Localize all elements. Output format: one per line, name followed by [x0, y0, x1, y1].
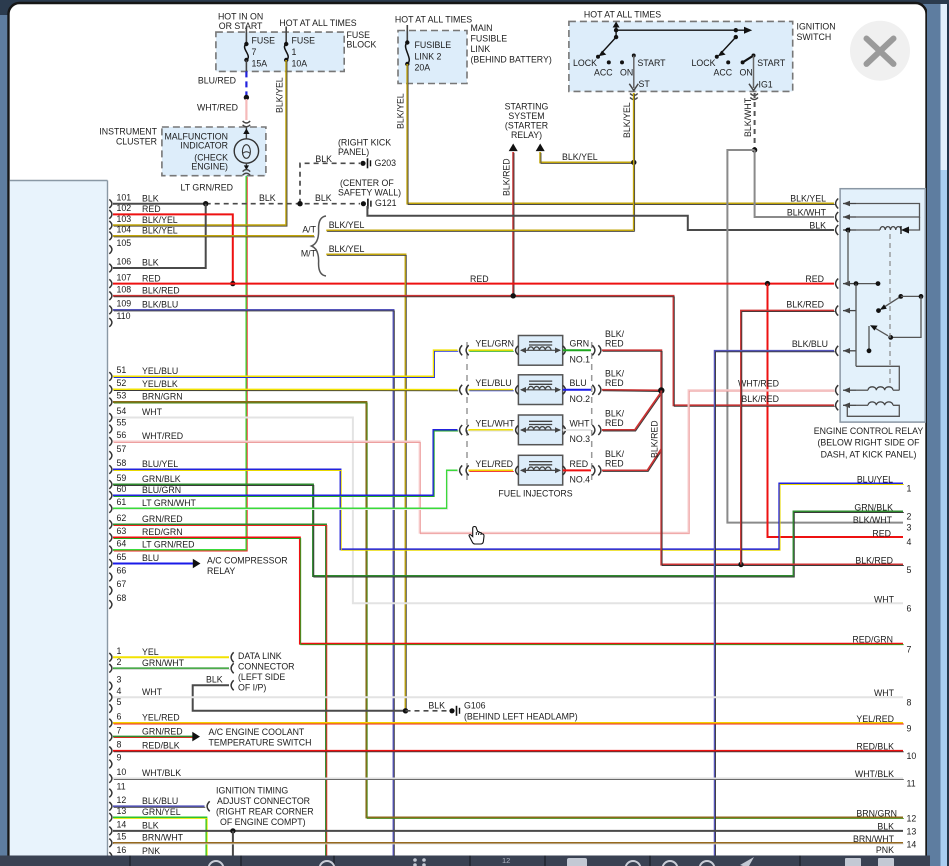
ground G203	[360, 161, 365, 166]
junction dot ST branch	[631, 160, 636, 165]
fuse F7 15A	[244, 42, 248, 46]
svg-text:BLK/YEL: BLK/YEL	[329, 220, 365, 230]
pin 53 bracket/label	[109, 398, 112, 407]
svg-text:(STARTER: (STARTER	[505, 121, 548, 131]
svg-text:BLK/RED: BLK/RED	[650, 420, 660, 458]
svg-text:OF ENGINE COMPT): OF ENGINE COMPT)	[220, 817, 306, 827]
pin 107 bracket/label	[109, 279, 112, 288]
svg-text:RED: RED	[605, 339, 624, 349]
ignition switch box	[569, 21, 793, 91]
relay coil lower (WHT/RED)	[856, 389, 868, 391]
wire 16 PNK	[113, 856, 903, 858]
svg-text:65: 65	[117, 552, 127, 562]
wire 60 BLU/GRN to injector 3	[113, 430, 458, 496]
svg-text:GRN/RED: GRN/RED	[142, 726, 183, 736]
injector NO.4 output wire RED	[563, 469, 591, 471]
svg-text:53: 53	[117, 391, 127, 401]
svg-text:RED/GRN: RED/GRN	[142, 527, 183, 537]
pin 64 bracket/label	[109, 546, 112, 555]
wire fuse 7 top lead	[245, 27, 247, 45]
svg-text:6: 6	[907, 603, 912, 613]
svg-text:4: 4	[907, 537, 912, 547]
close button	[850, 21, 910, 81]
wire BLU/RED dashed from fuse 7	[245, 60, 247, 71]
pin 5 bracket/label	[109, 704, 112, 713]
svg-text:RED: RED	[805, 274, 824, 284]
pin 66 bracket/label	[109, 573, 112, 582]
svg-text:13: 13	[907, 826, 917, 836]
svg-text:HOT AT ALL TIMES: HOT AT ALL TIMES	[279, 18, 356, 28]
pin 15 bracket/label	[109, 839, 112, 848]
ST output	[633, 56, 635, 89]
svg-text:ADJUST CONNECTOR: ADJUST CONNECTOR	[217, 796, 310, 806]
pin 12 bracket/label	[109, 802, 112, 811]
pin 1 bracket/label	[109, 653, 112, 662]
svg-text:101: 101	[117, 192, 132, 202]
svg-text:106: 106	[117, 257, 132, 267]
injector NO.1 output wire GRN	[563, 349, 591, 351]
svg-text:8: 8	[907, 697, 912, 707]
svg-text:BLK/YEL: BLK/YEL	[275, 77, 285, 113]
svg-text:ON: ON	[740, 67, 753, 77]
wire 8 RED/BLK to pin 10	[113, 750, 903, 752]
svg-text:SAFETY WALL): SAFETY WALL)	[338, 187, 401, 197]
svg-text:M/T: M/T	[301, 248, 317, 258]
pin 57 bracket/label	[109, 451, 112, 460]
relay wire BLK to switch common	[847, 230, 849, 284]
svg-text:15A: 15A	[252, 58, 268, 68]
svg-text:WHT: WHT	[874, 688, 895, 698]
svg-text:BRN/WHT: BRN/WHT	[142, 833, 184, 843]
pin 110 bracket/label	[109, 318, 112, 327]
svg-text:ACC: ACC	[594, 67, 613, 77]
svg-text:LT GRN/RED: LT GRN/RED	[142, 540, 194, 550]
wire 62 GRN/RED down	[113, 525, 326, 856]
relay pin connectors	[836, 199, 839, 209]
svg-text:14: 14	[117, 820, 127, 830]
svg-text:INSTRUMENT: INSTRUMENT	[99, 126, 157, 136]
svg-text:20A: 20A	[415, 62, 431, 72]
svg-text:YEL/WHT: YEL/WHT	[475, 418, 515, 428]
svg-text:BLK/WHT: BLK/WHT	[743, 97, 753, 137]
pin 67 bracket/label	[109, 586, 112, 595]
IG1 output	[753, 56, 755, 89]
relay coil lower (BLK/RED)	[856, 404, 868, 406]
svg-text:RED/BLK: RED/BLK	[142, 740, 180, 750]
svg-text:YEL/BLK: YEL/BLK	[142, 379, 178, 389]
svg-text:YEL/BLU: YEL/BLU	[142, 366, 178, 376]
svg-text:15: 15	[117, 832, 127, 842]
pin 52 bracket/label	[109, 385, 112, 394]
svg-text:ENGINE): ENGINE)	[191, 161, 228, 171]
pin 13 bracket/label	[109, 813, 112, 822]
wire 6 YEL/RED to pin 9	[113, 722, 903, 724]
svg-text:ST: ST	[639, 79, 651, 89]
svg-text:LT GRN/RED: LT GRN/RED	[181, 182, 233, 192]
relay switch arm 1	[876, 308, 881, 313]
malfunction indicator box	[162, 127, 266, 176]
pin 62 bracket/label	[109, 520, 112, 529]
svg-text:HOT AT ALL TIMES: HOT AT ALL TIMES	[395, 14, 472, 24]
svg-text:A/C COMPRESSOR: A/C COMPRESSOR	[207, 555, 288, 565]
injector NO.1 left connector	[460, 345, 463, 355]
pin 109 bracket/label	[109, 306, 112, 315]
wire 56 WHT/RED to relay coil	[113, 390, 834, 533]
toolbar icons (partial)	[209, 861, 715, 866]
pin 3 bracket/label	[109, 682, 112, 691]
svg-text:WHT/RED: WHT/RED	[142, 431, 183, 441]
svg-text:GRN/YEL: GRN/YEL	[142, 807, 181, 817]
wire BLK/WHT long to pin 3	[727, 150, 903, 523]
svg-text:G121: G121	[375, 198, 397, 208]
wire BLK/YEL from fuse 1 to pin 103	[113, 60, 286, 225]
svg-text:4: 4	[117, 686, 122, 696]
svg-text:BLU/YEL: BLU/YEL	[857, 475, 893, 485]
wire BLK/RED common to pin 5	[661, 391, 903, 565]
junction dot 101/G203	[297, 201, 302, 206]
pin 54 bracket/label	[109, 413, 112, 422]
fuse block box	[216, 32, 344, 71]
svg-text:FUSE: FUSE	[347, 30, 371, 40]
pin 14 bracket/label	[109, 827, 112, 836]
svg-text:BLK/WHT: BLK/WHT	[853, 515, 893, 525]
svg-text:BLK/YEL: BLK/YEL	[329, 244, 365, 254]
svg-text:54: 54	[117, 406, 127, 416]
wire BLK/YEL to starter relay	[540, 152, 634, 162]
relay junction dot BLK	[846, 228, 851, 233]
injector connector dashed line right	[591, 342, 593, 483]
relay dashed actuator line	[889, 234, 891, 386]
wire 104 BLK/YEL to A/T-M/T brace	[113, 235, 314, 237]
svg-text:12: 12	[117, 795, 127, 805]
svg-text:HOT AT ALL TIMES: HOT AT ALL TIMES	[584, 10, 661, 20]
pin 108 bracket/label	[109, 292, 112, 301]
svg-text:RED: RED	[470, 274, 489, 284]
svg-text:BRN/GRN: BRN/GRN	[142, 392, 183, 402]
svg-text:WHT/RED: WHT/RED	[738, 379, 779, 389]
svg-text:63: 63	[117, 526, 127, 536]
pin 68 bracket/label	[109, 600, 112, 609]
connector arcs below IG1	[750, 94, 758, 96]
svg-text:BLU/GRN: BLU/GRN	[142, 485, 181, 495]
pin 16 bracket/label	[109, 852, 112, 861]
svg-text:YEL/RED: YEL/RED	[142, 713, 180, 723]
svg-text:BLK/BLU: BLK/BLU	[142, 796, 178, 806]
svg-text:OF I/P): OF I/P)	[238, 682, 266, 692]
junction dot row5/relay	[738, 562, 743, 567]
svg-text:66: 66	[117, 566, 127, 576]
svg-text:BLK: BLK	[142, 193, 159, 203]
pin 104 bracket/label	[109, 232, 112, 241]
svg-text:WHT: WHT	[142, 687, 163, 697]
wire 12 BLK/BLU to ignition timing connector	[113, 805, 205, 807]
svg-text:(RIGHT REAR CORNER: (RIGHT REAR CORNER	[216, 806, 314, 816]
svg-text:GRN/BLK: GRN/BLK	[854, 503, 893, 513]
svg-text:5: 5	[117, 697, 122, 707]
wire BLK/RED relay switch to row 5	[741, 311, 834, 565]
injector NO.1 wire YEL/GRN	[469, 349, 514, 351]
svg-text:(BELOW RIGHT SIDE OF: (BELOW RIGHT SIDE OF	[818, 438, 921, 448]
injector connector dashed line left	[466, 342, 468, 481]
ignition timing connector arc	[207, 801, 210, 811]
svg-text:BLK: BLK	[315, 154, 332, 164]
svg-text:(LEFT SIDE: (LEFT SIDE	[238, 672, 285, 682]
svg-text:PANEL): PANEL)	[338, 147, 369, 157]
svg-text:BLK/BLU: BLK/BLU	[792, 339, 828, 349]
injector NO.2 left connector	[460, 385, 463, 395]
svg-text:TEMPERATURE SWITCH: TEMPERATURE SWITCH	[209, 737, 312, 747]
pin 6 bracket/label	[109, 719, 112, 728]
svg-text:HOT IN ON: HOT IN ON	[218, 11, 263, 21]
svg-text:START: START	[757, 58, 786, 68]
svg-text:107: 107	[117, 272, 132, 282]
injector NO.2 output wire BLU	[563, 389, 591, 391]
svg-text:51: 51	[117, 365, 127, 375]
junction dot 107/row4	[765, 281, 770, 286]
svg-text:GRN/BLK: GRN/BLK	[142, 474, 181, 484]
svg-text:YEL/BLU: YEL/BLU	[475, 378, 511, 388]
wire BLK dashed to G203	[300, 163, 360, 203]
relay wire common down	[855, 284, 857, 367]
svg-text:BLK: BLK	[206, 675, 223, 685]
svg-text:GRN/WHT: GRN/WHT	[142, 658, 185, 668]
wire BLK/RED injector 2	[602, 389, 661, 392]
junction dot 102/107	[230, 281, 235, 286]
scrollbar track	[927, 0, 949, 866]
wire 108 BLK/RED to relay coil	[113, 296, 834, 406]
svg-text:56: 56	[117, 430, 127, 440]
svg-text:MAIN: MAIN	[471, 23, 493, 33]
svg-text:BLK/RED: BLK/RED	[502, 158, 512, 196]
svg-text:BLK: BLK	[142, 258, 159, 268]
wire 2 GRN/WHT to data link	[113, 667, 229, 669]
wire BLK/RED injector 3	[602, 392, 661, 430]
wire 54 WHT to pin 6	[113, 418, 903, 604]
pin 63 bracket/label	[109, 533, 112, 542]
left connector panel (light blue)	[10, 181, 108, 856]
ignition switch 2 contacts	[734, 28, 738, 32]
svg-text:2: 2	[907, 511, 912, 521]
svg-text:START: START	[638, 58, 667, 68]
wire BLK data link to G106	[193, 685, 406, 711]
svg-text:RELAY: RELAY	[207, 566, 235, 576]
svg-text:LINK 2: LINK 2	[415, 51, 442, 61]
injector NO.1 right connector	[592, 345, 595, 355]
svg-text:BLU: BLU	[570, 378, 587, 388]
svg-text:BLOCK: BLOCK	[347, 39, 377, 49]
svg-text:RED/GRN: RED/GRN	[852, 635, 893, 645]
pin 65 bracket/label	[109, 559, 112, 568]
svg-text:59: 59	[117, 473, 127, 483]
svg-text:(BEHIND LEFT HEADLAMP): (BEHIND LEFT HEADLAMP)	[464, 711, 578, 721]
svg-text:1: 1	[292, 47, 297, 57]
svg-text:BLK/RED: BLK/RED	[142, 285, 180, 295]
svg-text:BLK: BLK	[809, 220, 826, 230]
svg-text:67: 67	[117, 579, 127, 589]
svg-text:12: 12	[502, 856, 510, 865]
svg-text:58: 58	[117, 458, 127, 468]
pin 51 bracket/label	[109, 372, 112, 381]
bottom toolbar	[0, 856, 930, 866]
pin 2 bracket/label	[109, 664, 112, 673]
svg-text:LT GRN/WHT: LT GRN/WHT	[142, 498, 197, 508]
svg-text:BLK/YEL: BLK/YEL	[142, 226, 178, 236]
svg-text:BLK/WHT: BLK/WHT	[787, 207, 827, 217]
injector NO.3 body	[518, 415, 562, 445]
relay coil (upper)	[856, 229, 880, 231]
dark top window edge	[0, 0, 949, 15]
pin 105 bracket/label	[109, 245, 112, 254]
svg-text:BLU/YEL: BLU/YEL	[142, 459, 178, 469]
data link connector arcs	[231, 652, 234, 662]
junction dot row 14	[230, 828, 235, 833]
svg-text:BRN/WHT: BRN/WHT	[853, 834, 895, 844]
injector NO.4 body	[518, 455, 562, 485]
svg-text:BLK: BLK	[142, 821, 159, 831]
svg-text:BLK/RED: BLK/RED	[786, 299, 824, 309]
pin 10 bracket/label	[109, 774, 112, 783]
svg-text:1: 1	[907, 483, 912, 493]
svg-text:ACC: ACC	[714, 67, 733, 77]
svg-text:FUSE: FUSE	[292, 35, 316, 45]
svg-text:LOCK: LOCK	[692, 58, 716, 68]
svg-text:10: 10	[907, 751, 917, 761]
svg-text:NO.1: NO.1	[570, 354, 591, 364]
svg-text:G203: G203	[375, 158, 397, 168]
wire 107 RED to relay	[113, 283, 834, 285]
injector NO.4 wire YEL/RED	[469, 469, 514, 471]
svg-text:BLK/BLU: BLK/BLU	[142, 300, 178, 310]
wire 51 YEL/BLU to injector 1	[113, 350, 458, 376]
wire fuse 1 top lead	[285, 27, 287, 45]
relay switch arm 2	[888, 335, 893, 340]
injector NO.2 right connector	[592, 385, 595, 395]
svg-text:YEL/RED: YEL/RED	[475, 459, 513, 469]
wire 63 RED/GRN to pin 7	[113, 538, 903, 644]
pin 9 bracket/label	[109, 760, 112, 769]
svg-text:LINK: LINK	[471, 44, 491, 54]
svg-text:WHT/BLK: WHT/BLK	[855, 769, 894, 779]
svg-text:DASH, AT KICK PANEL): DASH, AT KICK PANEL)	[821, 449, 917, 459]
svg-text:RED: RED	[605, 458, 624, 468]
svg-text:BLK/YEL: BLK/YEL	[562, 152, 598, 162]
junction dot 101/106	[203, 201, 208, 206]
svg-text:GRN: GRN	[570, 339, 590, 349]
fusible link 2 20A	[405, 40, 409, 44]
svg-text:6: 6	[117, 712, 122, 722]
injector NO.2 body	[518, 375, 562, 405]
svg-text:INDICATOR: INDICATOR	[180, 140, 228, 150]
fuse F1 10A	[284, 42, 288, 46]
wire BLK/YEL from fusible link to relay	[407, 64, 834, 204]
wire fusible link top lead	[406, 25, 408, 43]
A/T M/T brace	[312, 216, 327, 276]
svg-text:61: 61	[117, 497, 127, 507]
svg-text:YEL/GRN: YEL/GRN	[475, 339, 514, 349]
pin 101 bracket/label	[109, 199, 112, 208]
svg-text:FUSE: FUSE	[252, 35, 276, 45]
svg-text:DATA LINK: DATA LINK	[238, 651, 282, 661]
wire 61 LT GRN/WHT to injector 4	[113, 470, 458, 508]
junction dot IG1	[752, 147, 757, 152]
svg-text:NO.2: NO.2	[570, 394, 591, 404]
wire 7 GRN/RED to A/C switch	[113, 736, 193, 738]
svg-text:10: 10	[117, 767, 127, 777]
svg-text:7: 7	[907, 644, 912, 654]
svg-text:10A: 10A	[292, 58, 308, 68]
injector NO.2 wire YEL/BLU	[469, 389, 514, 391]
svg-text:SWITCH: SWITCH	[797, 32, 832, 42]
svg-text:STARTING: STARTING	[505, 102, 549, 112]
injector NO.3 left connector	[460, 425, 463, 435]
svg-text:WHT/RED: WHT/RED	[197, 102, 238, 112]
pin 103 bracket/label	[109, 221, 112, 230]
junction dot above WHT/RED	[244, 95, 249, 100]
wire 102 RED	[113, 214, 233, 283]
svg-text:BLK/YEL: BLK/YEL	[142, 215, 178, 225]
wire 59 GRN/BLK to pin 2	[113, 485, 903, 577]
wire 15 BRN/WHT to pin 14	[113, 842, 903, 844]
svg-text:RED: RED	[142, 273, 161, 283]
wire BLK/BLU relay to bottom	[715, 351, 834, 856]
svg-text:(RIGHT KICK: (RIGHT KICK	[338, 137, 391, 147]
connector arcs below lamp	[243, 170, 251, 172]
svg-text:68: 68	[117, 593, 127, 603]
svg-text:RED: RED	[605, 418, 624, 428]
wire BLK/RED to starter relay	[512, 152, 514, 296]
wire 52 YEL/BLK to injector 2	[113, 389, 458, 391]
svg-text:(BEHIND BATTERY): (BEHIND BATTERY)	[471, 55, 552, 65]
svg-text:RED/BLK: RED/BLK	[856, 741, 894, 751]
pin 58 bracket/label	[109, 465, 112, 474]
toolbar dividers	[129, 856, 131, 866]
svg-text:1: 1	[117, 646, 122, 656]
ground G106	[449, 708, 454, 713]
svg-text:G106: G106	[464, 700, 486, 710]
svg-text:A/C ENGINE COOLANT: A/C ENGINE COOLANT	[209, 727, 305, 737]
svg-text:(CENTER OF: (CENTER OF	[340, 178, 394, 188]
svg-text:BLK/YEL: BLK/YEL	[396, 93, 406, 129]
svg-text:BLK: BLK	[259, 193, 276, 203]
svg-text:BLU: BLU	[142, 553, 159, 563]
svg-text:YEL/RED: YEL/RED	[856, 714, 894, 724]
svg-text:ON: ON	[620, 67, 633, 77]
svg-text:3: 3	[907, 522, 912, 532]
injector NO.3 output wire WHT	[563, 429, 591, 431]
svg-text:IGNITION TIMING: IGNITION TIMING	[216, 785, 288, 795]
wire BLK/YEL M/T branch to G106	[326, 254, 405, 710]
pin 4 bracket/label	[109, 693, 112, 702]
svg-text:14: 14	[907, 839, 917, 849]
wire 101 BLK dashed to G121	[206, 203, 360, 205]
junction dot G106	[403, 708, 408, 713]
pin 7 bracket/label	[109, 732, 112, 741]
ignition switch 1 contacts	[614, 28, 618, 32]
svg-text:52: 52	[117, 378, 127, 388]
svg-text:BLK/YEL: BLK/YEL	[790, 193, 826, 203]
svg-text:RELAY): RELAY)	[511, 130, 542, 140]
svg-text:8: 8	[117, 739, 122, 749]
svg-text:3: 3	[117, 675, 122, 685]
connector arcs below ST	[630, 94, 638, 96]
svg-text:RED: RED	[605, 378, 624, 388]
svg-text:108: 108	[117, 284, 132, 294]
svg-text:9: 9	[117, 753, 122, 763]
injector NO.1 body	[518, 336, 562, 366]
wire 101 BLK solid segment	[113, 203, 206, 205]
check engine lamp U1	[245, 126, 247, 139]
svg-text:BLK: BLK	[877, 821, 894, 831]
